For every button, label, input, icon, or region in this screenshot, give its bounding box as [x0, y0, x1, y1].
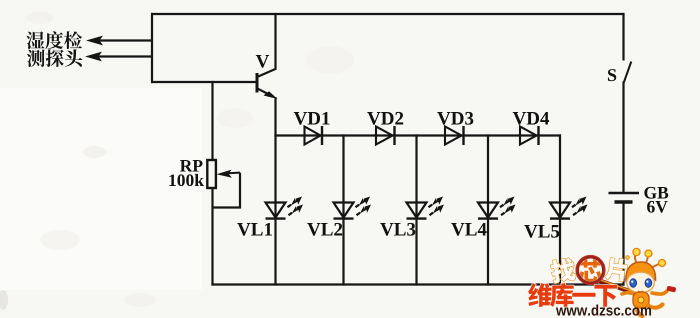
wire VL3 column	[415, 134, 417, 285]
label VD3	[437, 112, 473, 125]
label VL1	[237, 223, 272, 236]
label VD2	[367, 112, 403, 125]
label 测探头 (-tion probe)	[27, 49, 82, 67]
wire left vertical (probe block left side)	[151, 13, 153, 83]
label 6V	[647, 201, 668, 213]
label VD4	[513, 112, 549, 125]
wire VL5 column	[559, 134, 561, 285]
label GB	[644, 187, 668, 199]
wire emitter vertical / VL1 column	[274, 97, 276, 286]
wire diode chain rail	[274, 134, 561, 136]
wire right vertical lower	[622, 202, 624, 286]
label VD1	[294, 112, 330, 125]
label VL2	[307, 223, 342, 236]
wire VL2 column	[342, 134, 344, 285]
transistor V (NPN)	[257, 13, 278, 99]
label V	[256, 55, 269, 68]
watermark 维库一下	[528, 283, 617, 307]
LED VL3	[407, 194, 447, 219]
wire RP lower vertical	[211, 187, 213, 286]
watermark mascot	[622, 248, 676, 316]
label VL4	[451, 223, 486, 236]
arrowhead probe lead 1	[86, 36, 103, 46]
wire base rail (probe block bottom)	[151, 81, 257, 83]
resistor RP 100k (potentiometer body)	[207, 160, 216, 188]
wire probe lead 1	[98, 39, 153, 41]
watermark 找芯片 magnifier logo	[550, 255, 643, 296]
diode VD2	[376, 126, 395, 145]
LED VL5	[550, 194, 590, 219]
switch S	[624, 62, 632, 83]
label 湿度检 (humidity detec-)	[26, 31, 82, 49]
wire VL4 column	[487, 134, 489, 285]
diode VD3	[445, 126, 464, 145]
label 100k	[169, 174, 204, 186]
wire probe lead 2	[97, 55, 153, 57]
arrowhead probe lead 2	[85, 52, 102, 62]
LED VL2	[334, 194, 374, 219]
wiper arrow RP	[217, 170, 241, 178]
label VL5	[524, 225, 559, 238]
LED VL4	[478, 194, 518, 219]
diode VD4	[520, 126, 539, 145]
wire right vertical middle	[622, 82, 624, 193]
label VL3	[380, 223, 415, 236]
wire wiper loop	[212, 173, 241, 208]
wire RP branch vertical upper	[211, 81, 213, 161]
LED VL1	[266, 194, 306, 219]
diode VD1	[305, 126, 323, 145]
watermark www.dzsc.com	[556, 304, 651, 315]
wire bottom rail	[211, 283, 624, 285]
label S	[608, 69, 616, 81]
battery GB (cell)	[609, 193, 640, 202]
label RP	[180, 160, 203, 171]
wire top rail	[151, 13, 625, 15]
wire right vertical upper	[622, 13, 624, 61]
